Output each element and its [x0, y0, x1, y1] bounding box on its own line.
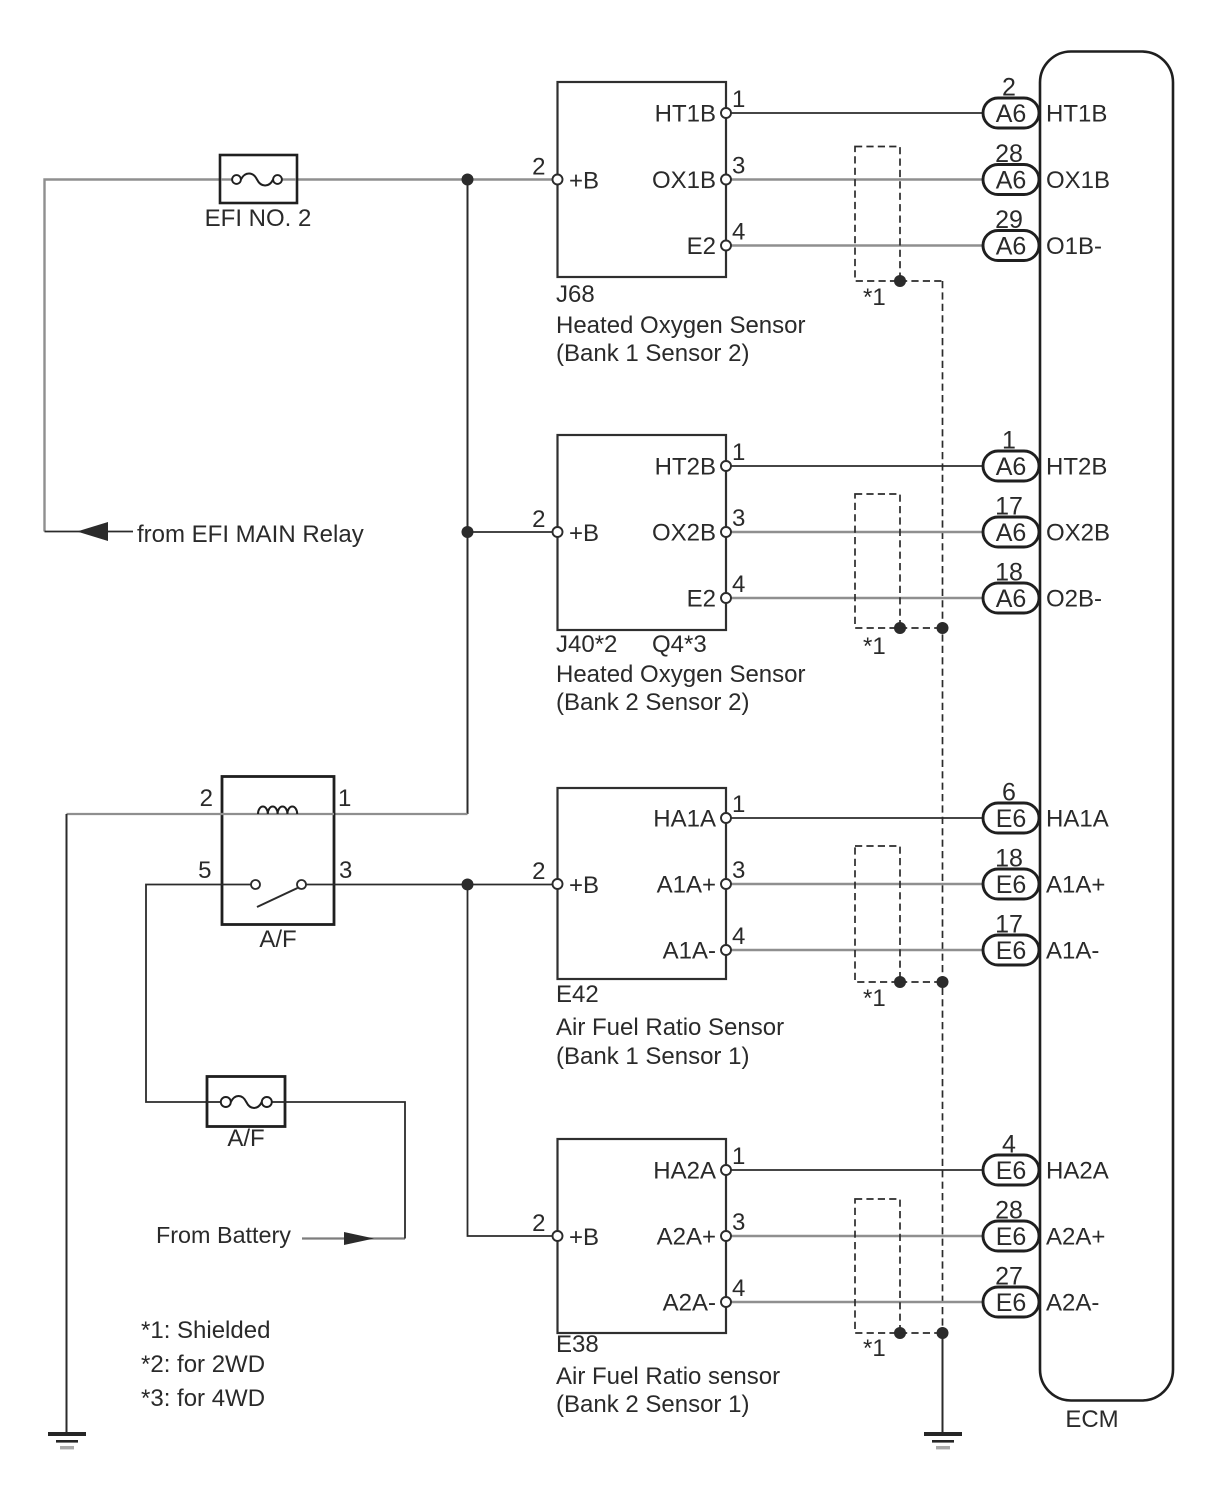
svg-text:17: 17 [995, 493, 1023, 521]
svg-text:Q4*3: Q4*3 [652, 631, 707, 658]
svg-text:J68: J68 [556, 281, 595, 308]
svg-text:E6: E6 [996, 871, 1027, 899]
junction: feed at HOS bank2 +B [462, 526, 474, 538]
svg-text:OX2B: OX2B [652, 520, 716, 547]
note *3: for 4WD [141, 1385, 265, 1412]
svg-text:28: 28 [995, 140, 1023, 168]
wire: battery feed from fuse EFI NO.2 to +B junctions [45, 180, 558, 532]
svg-text:1: 1 [1002, 427, 1016, 455]
wire: relay pin 2 to ground [67, 814, 223, 1432]
fuse A/F [207, 1077, 285, 1153]
wire E38 pin1 HA2A to ECM [726, 1169, 983, 1171]
pin 1 of E38 (HA2A) [653, 1143, 745, 1185]
pin 3 of E38 (A2A+) [657, 1209, 746, 1251]
svg-text:ECM: ECM [1065, 1406, 1118, 1433]
svg-text:O2B-: O2B- [1046, 586, 1102, 613]
svg-text:2: 2 [532, 154, 545, 181]
junction: feed at fuse line [462, 174, 474, 186]
shield box *1 around E42 signal wires [855, 846, 900, 1012]
svg-text:A6: A6 [996, 453, 1027, 481]
svg-text:6: 6 [1002, 779, 1016, 807]
label: E38 [556, 1331, 599, 1358]
svg-text:E42: E42 [556, 981, 599, 1008]
fuse EFI NO. 2 [205, 155, 312, 232]
relay pin number 1 [338, 785, 351, 812]
svg-text:(Bank 1 Sensor 2): (Bank 1 Sensor 2) [556, 340, 749, 367]
ECM connector E6 pin 6 (HA1A) [983, 779, 1109, 834]
svg-text:E2: E2 [687, 586, 716, 613]
label: J68 [556, 281, 595, 308]
svg-text:2: 2 [1002, 74, 1016, 102]
ECM connector A6 pin 2 (HT1B) [983, 74, 1107, 129]
svg-text:*1: *1 [863, 284, 886, 311]
wire J68 pin1 HT1B to ECM [726, 112, 983, 114]
svg-text:*1: Shielded: *1: Shielded [141, 1317, 270, 1344]
wire E38 pin3 A2A+ to ECM (shielded) [726, 1235, 983, 1237]
label: (Bank 2 Sensor 2) [556, 689, 749, 716]
shield box *1 around E38 signal wires [855, 1199, 900, 1362]
label: J40*2 Q4*3 [556, 631, 707, 658]
label: Air Fuel Ratio Sensor [556, 1014, 784, 1041]
pin 2 of J40 (+B) [532, 506, 599, 547]
svg-text:E6: E6 [996, 937, 1027, 965]
wire: branch to J40 +B [468, 531, 558, 533]
drain bus junction [937, 976, 949, 988]
svg-text:4: 4 [732, 571, 745, 598]
svg-text:*2: for 2WD: *2: for 2WD [141, 1351, 265, 1378]
svg-text:O1B-: O1B- [1046, 233, 1102, 260]
svg-text:A/F: A/F [259, 926, 296, 953]
shield box *1 around J40 signal wires [855, 494, 900, 660]
svg-text:Heated Oxygen Sensor: Heated Oxygen Sensor [556, 312, 805, 339]
svg-text:*1: *1 [863, 633, 886, 660]
wire J68 pin4 E2 to ECM (shielded) [726, 244, 983, 246]
label: (Bank 1 Sensor 2) [556, 340, 749, 367]
svg-text:OX1B: OX1B [652, 167, 716, 194]
svg-text:1: 1 [732, 86, 745, 113]
svg-text:EFI NO. 2: EFI NO. 2 [205, 205, 312, 232]
junction: A/F +B branch [462, 879, 474, 891]
wire/arrow: from EFI MAIN Relay [45, 521, 364, 548]
ECM connector A6 pin 1 (HT2B) [983, 427, 1107, 482]
pin 1 of J68 (HT1B) [655, 86, 746, 128]
wire: relay pin 3 to A/F sensor +B feeds [334, 885, 558, 1237]
svg-text:5: 5 [198, 857, 211, 884]
svg-text:4: 4 [732, 219, 745, 246]
ECM connector E6 pin 18 (A1A+) [983, 845, 1105, 900]
wire E42 pin4 A1A- to ECM (shielded) [726, 949, 983, 951]
svg-text:A6: A6 [996, 100, 1027, 128]
wire/arrow: From Battery [156, 1102, 405, 1248]
wire E42 pin3 A1A+ to ECM (shielded) [726, 883, 983, 885]
svg-text:4: 4 [732, 923, 745, 950]
ECM connector A6 pin 29 (O1B-) [983, 206, 1102, 261]
wire J68 pin3 OX1B to ECM (shielded) [726, 178, 983, 180]
svg-text:A2A-: A2A- [663, 1290, 716, 1317]
svg-text:A6: A6 [996, 233, 1027, 261]
label: (Bank 1 Sensor 1) [556, 1043, 749, 1070]
label: Heated Oxygen Sensor [556, 312, 805, 339]
pin 3 of J40 (OX2B) [652, 505, 745, 547]
svg-text:3: 3 [339, 857, 352, 884]
wire: relay pin 5 to fuse A/F [146, 885, 222, 1103]
svg-text:(Bank 2 Sensor 1): (Bank 2 Sensor 1) [556, 1391, 749, 1418]
shield drain dashed bus [942, 281, 944, 1333]
svg-text:3: 3 [732, 1209, 745, 1236]
ECM connector E6 pin 4 (HA2A) [983, 1131, 1109, 1186]
svg-text:1: 1 [732, 1143, 745, 1170]
svg-text:OX2B: OX2B [1046, 520, 1110, 547]
relay pin number 3 [339, 857, 352, 884]
wire: shield drain to ground [942, 1333, 944, 1432]
pin 2 of J68 (+B) [532, 154, 599, 195]
svg-text:A6: A6 [996, 519, 1027, 547]
note *2: for 2WD [141, 1351, 265, 1378]
label: Heated Oxygen Sensor [556, 661, 805, 688]
svg-text:*3: for 4WD: *3: for 4WD [141, 1385, 265, 1412]
svg-text:A6: A6 [996, 585, 1027, 613]
svg-text:3: 3 [732, 857, 745, 884]
pin 4 of J68 (E2) [687, 219, 746, 261]
svg-text:+B: +B [569, 520, 599, 547]
relay pin number 5 [198, 857, 211, 884]
label: (Bank 2 Sensor 1) [556, 1391, 749, 1418]
ECM connector E6 pin 17 (A1A-) [983, 911, 1099, 966]
label: Air Fuel Ratio sensor [556, 1363, 780, 1390]
shield drain junction of E42 [894, 976, 906, 988]
drain bus junction [937, 1327, 949, 1339]
svg-text:(Bank 2 Sensor 2): (Bank 2 Sensor 2) [556, 689, 749, 716]
ECM connector A6 pin 18 (O2B-) [983, 559, 1102, 614]
svg-text:HA1A: HA1A [1046, 806, 1109, 833]
shield box *1 around J68 signal wires [855, 147, 900, 312]
relay coil wire (pin 2 to pin 1) [222, 807, 334, 814]
svg-text:A1A-: A1A- [1046, 938, 1099, 965]
svg-text:2: 2 [532, 506, 545, 533]
svg-text:E38: E38 [556, 1331, 599, 1358]
svg-text:4: 4 [1002, 1131, 1016, 1159]
dashed link to drain bus [900, 1332, 943, 1334]
wire E38 pin4 A2A- to ECM (shielded) [726, 1301, 983, 1303]
svg-text:*1: *1 [863, 1335, 886, 1362]
pin 3 of J68 (OX1B) [652, 153, 745, 195]
shield drain junction of J68 [894, 275, 906, 287]
drain bus junction [937, 622, 949, 634]
svg-text:1: 1 [732, 791, 745, 818]
svg-text:HA2A: HA2A [1046, 1158, 1109, 1185]
connector E42 block [558, 788, 727, 979]
svg-text:+B: +B [569, 1224, 599, 1251]
ECM connector E6 pin 28 (A2A+) [983, 1197, 1105, 1252]
svg-text:A2A-: A2A- [1046, 1290, 1099, 1317]
svg-text:HT2B: HT2B [1046, 454, 1107, 481]
ECM connector E6 pin 27 (A2A-) [983, 1263, 1099, 1318]
dashed link to drain bus [900, 981, 943, 983]
pin 2 of E42 (+B) [532, 858, 599, 899]
svg-text:2: 2 [532, 1210, 545, 1237]
wire: vertical feed to relay pin 1 [334, 180, 468, 815]
shield drain junction of E38 [894, 1327, 906, 1339]
svg-text:From Battery: From Battery [156, 1222, 291, 1248]
wire J40 pin3 OX2B to ECM (shielded) [726, 531, 983, 533]
svg-text:*1: *1 [863, 985, 886, 1012]
relay A/F [222, 777, 334, 954]
svg-text:1: 1 [732, 439, 745, 466]
pin 4 of E38 (A2A-) [663, 1275, 746, 1317]
svg-text:E2: E2 [687, 233, 716, 260]
svg-text:Air Fuel Ratio Sensor: Air Fuel Ratio Sensor [556, 1014, 784, 1041]
svg-text:(Bank 1 Sensor 1): (Bank 1 Sensor 1) [556, 1043, 749, 1070]
svg-text:A1A-: A1A- [663, 938, 716, 965]
svg-text:1: 1 [338, 785, 351, 812]
svg-text:2: 2 [200, 785, 213, 812]
svg-text:Air Fuel Ratio sensor: Air Fuel Ratio sensor [556, 1363, 780, 1390]
relay switch (pin 5 to pin 3) [222, 880, 334, 907]
svg-text:HT2B: HT2B [655, 454, 716, 481]
svg-text:E6: E6 [996, 1289, 1027, 1317]
svg-text:HA1A: HA1A [653, 806, 716, 833]
pin 1 of J40 (HT2B) [655, 439, 746, 481]
shield drain junction of J40 [894, 622, 906, 634]
svg-text:28: 28 [995, 1197, 1023, 1225]
svg-text:+B: +B [569, 872, 599, 899]
connector E38 block [558, 1139, 727, 1333]
svg-text:OX1B: OX1B [1046, 167, 1110, 194]
label: E42 [556, 981, 599, 1008]
pin 3 of E42 (A1A+) [657, 857, 746, 899]
svg-text:27: 27 [995, 1263, 1023, 1291]
svg-text:J40*2: J40*2 [556, 631, 617, 658]
dashed link to drain bus [900, 627, 943, 629]
ground (shield drain) [924, 1432, 962, 1449]
pin 4 of E42 (A1A-) [663, 923, 746, 965]
ECM body [1040, 52, 1173, 1434]
wire E42 pin1 HA1A to ECM [726, 817, 983, 819]
svg-text:E6: E6 [996, 1157, 1027, 1185]
connector J40 block [558, 435, 727, 630]
dashed link to drain bus [900, 280, 943, 282]
note *1: Shielded [141, 1317, 270, 1344]
svg-text:A2A+: A2A+ [1046, 1224, 1105, 1251]
svg-text:18: 18 [995, 559, 1023, 587]
svg-text:A6: A6 [996, 167, 1027, 195]
svg-text:A2A+: A2A+ [657, 1224, 716, 1251]
ECM connector A6 pin 17 (OX2B) [983, 493, 1110, 548]
pin 1 of E42 (HA1A) [653, 791, 745, 833]
svg-text:2: 2 [532, 858, 545, 885]
pin 2 of E38 (+B) [532, 1210, 599, 1251]
pin 4 of J40 (E2) [687, 571, 746, 613]
svg-text:HT1B: HT1B [1046, 101, 1107, 128]
svg-text:A/F: A/F [227, 1125, 264, 1152]
svg-text:+B: +B [569, 168, 599, 195]
relay pin number 2 [200, 785, 213, 812]
ECM connector A6 pin 28 (OX1B) [983, 140, 1110, 195]
svg-text:from EFI MAIN Relay: from EFI MAIN Relay [137, 521, 364, 548]
svg-text:Heated Oxygen Sensor: Heated Oxygen Sensor [556, 661, 805, 688]
svg-text:18: 18 [995, 845, 1023, 873]
svg-text:E6: E6 [996, 1223, 1027, 1251]
svg-text:HA2A: HA2A [653, 1158, 716, 1185]
svg-text:3: 3 [732, 153, 745, 180]
svg-text:A1A+: A1A+ [657, 872, 716, 899]
svg-text:29: 29 [995, 206, 1023, 234]
svg-text:3: 3 [732, 505, 745, 532]
svg-text:4: 4 [732, 1275, 745, 1302]
svg-text:A1A+: A1A+ [1046, 872, 1105, 899]
svg-text:17: 17 [995, 911, 1023, 939]
svg-text:HT1B: HT1B [655, 101, 716, 128]
svg-text:E6: E6 [996, 805, 1027, 833]
wire J40 pin4 E2 to ECM (shielded) [726, 597, 983, 599]
connector J68 block [558, 82, 727, 277]
wire J40 pin1 HT2B to ECM [726, 465, 983, 467]
ground (battery side) [48, 1432, 86, 1449]
